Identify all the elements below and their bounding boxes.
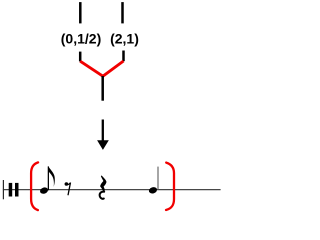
eighth rest curl: [67, 183, 71, 185]
note 1 stem: [47, 166, 49, 190]
svg-text:(2,1): (2,1): [110, 31, 139, 47]
quarter rest body: [100, 175, 106, 191]
thick bar 2: [15, 183, 19, 197]
red merge branch left: [80, 61, 103, 76]
thick bar 1: [9, 183, 13, 197]
arrow head: [97, 140, 109, 150]
note 1 flag: [48, 166, 54, 187]
red close parenthesis: [166, 163, 174, 210]
note 2 stem: [157, 167, 159, 190]
red open parenthesis: [31, 162, 38, 210]
tree branch stub right: [122, 51, 125, 62]
quarter rest hook: [100, 192, 105, 199]
note 2 head: [148, 186, 158, 194]
arrow shaft: [102, 120, 104, 142]
eighth rest slash: [68, 183, 71, 196]
tree leaf line left: [79, 2, 82, 23]
red merge branch right: [103, 61, 124, 76]
svg-text:(0,1/2): (0,1/2): [61, 31, 101, 47]
note 1 head: [39, 186, 49, 194]
thin barline: [2, 180, 4, 199]
tree leaf line right: [121, 2, 124, 23]
eighth rest dot: [65, 182, 69, 186]
staff line: [3, 189, 221, 191]
tree branch stub left: [79, 52, 82, 62]
tree trunk: [101, 76, 104, 101]
